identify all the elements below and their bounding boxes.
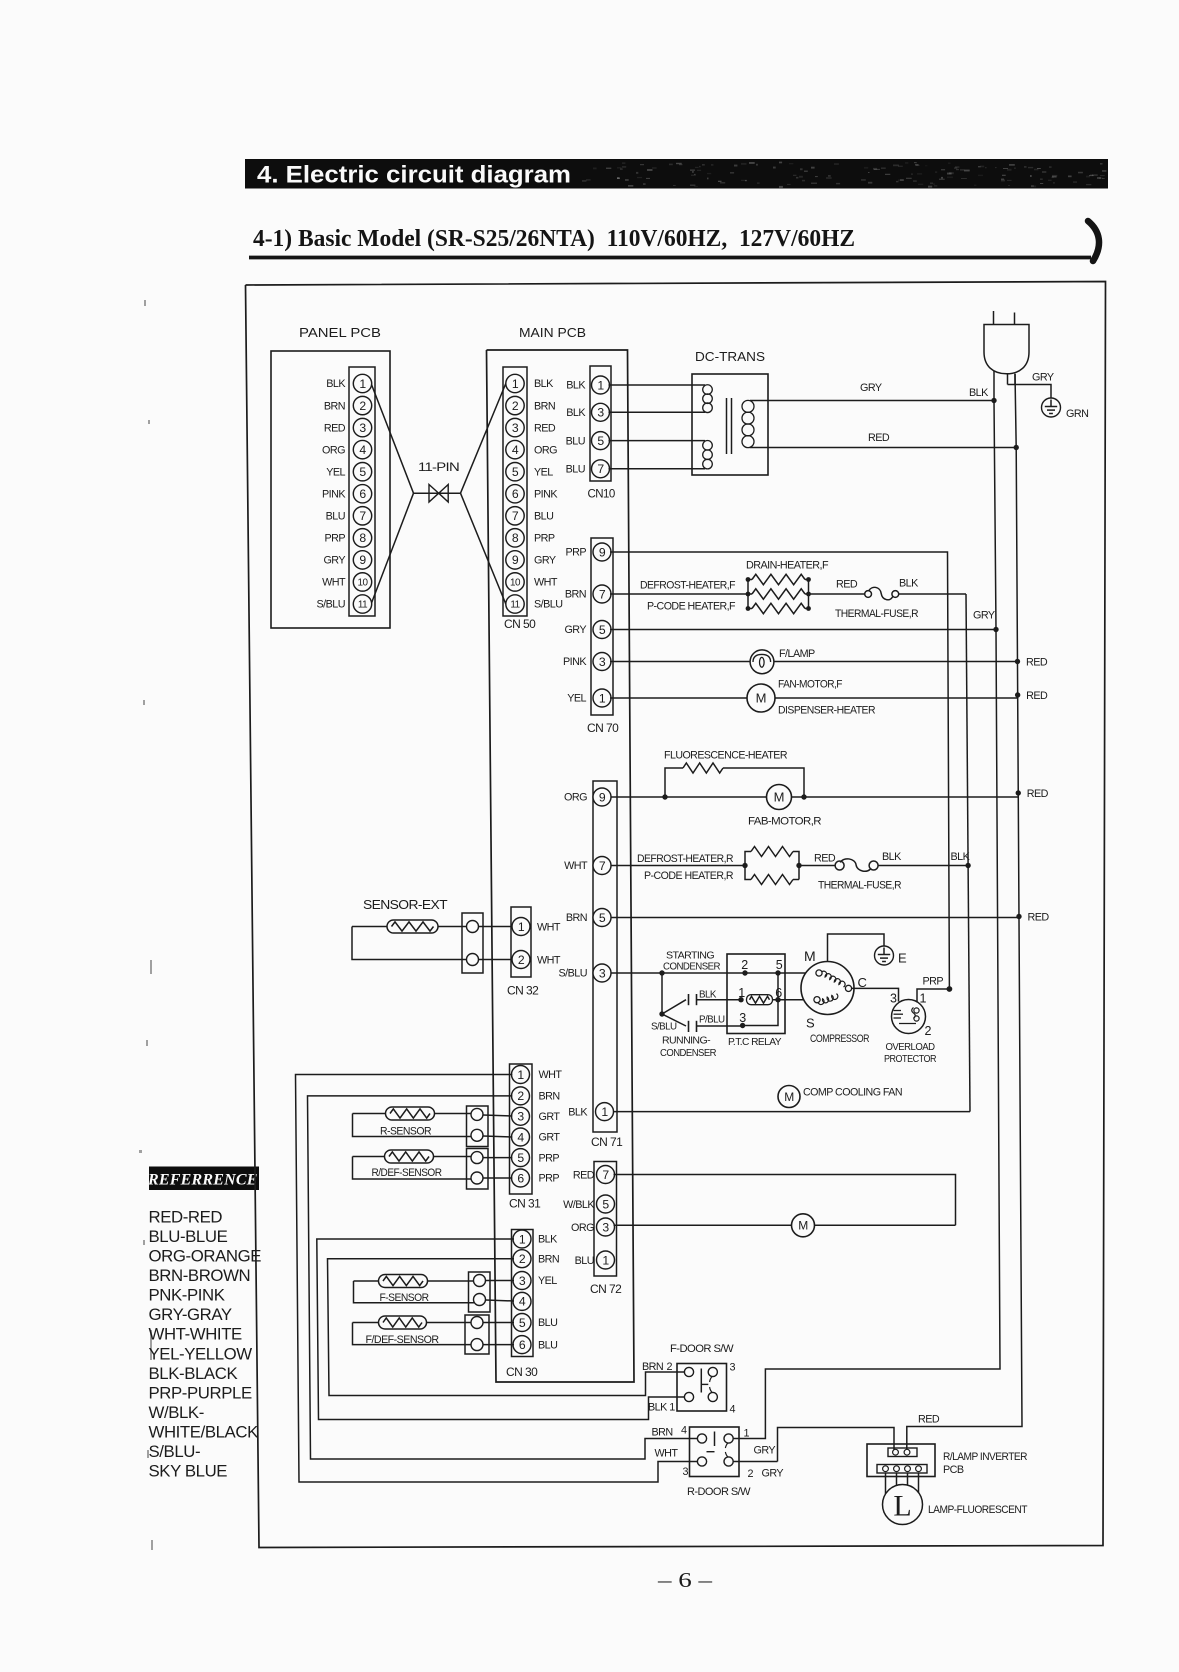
svg-text:DRAIN-HEATER,F: DRAIN-HEATER,F — [746, 560, 829, 572]
svg-text:MAIN PCB: MAIN PCB — [519, 325, 586, 340]
svg-text:F/LAMP: F/LAMP — [779, 648, 815, 660]
svg-text:2: 2 — [667, 1361, 673, 1373]
svg-text:CN 71: CN 71 — [591, 1135, 623, 1149]
svg-text:RED: RED — [1027, 788, 1049, 800]
svg-text:5: 5 — [599, 911, 606, 925]
svg-text:BLK: BLK — [566, 407, 586, 419]
svg-text:1: 1 — [518, 920, 525, 934]
svg-text:3: 3 — [602, 1220, 609, 1234]
svg-text:THERMAL-FUSE,R: THERMAL-FUSE,R — [818, 880, 902, 892]
svg-text:FAN-MOTOR,F: FAN-MOTOR,F — [778, 679, 843, 691]
svg-text:L: L — [893, 1490, 911, 1523]
svg-text:R/DEF-SENSOR: R/DEF-SENSOR — [372, 1167, 443, 1179]
svg-text:GRY: GRY — [762, 1468, 784, 1480]
svg-text:5: 5 — [512, 465, 519, 479]
svg-text:PINK: PINK — [563, 656, 587, 668]
svg-text:10: 10 — [358, 577, 369, 588]
svg-text:2: 2 — [512, 399, 519, 413]
svg-text:1: 1 — [744, 1428, 750, 1440]
svg-text:BLU: BLU — [538, 1317, 557, 1329]
svg-text:RED: RED — [1026, 690, 1048, 702]
svg-text:1: 1 — [519, 1232, 526, 1246]
svg-text:BLU: BLU — [326, 511, 345, 523]
svg-text:6: 6 — [517, 1171, 524, 1185]
svg-text:WHT: WHT — [537, 955, 561, 967]
svg-text:4-1) Basic Model (SR-S25/26NTA: 4-1) Basic Model (SR-S25/26NTA) 110V/60H… — [253, 226, 855, 252]
svg-text:4. Electric circuit diagram: 4. Electric circuit diagram — [257, 162, 571, 189]
svg-text:M: M — [774, 790, 785, 805]
svg-text:GRY: GRY — [564, 624, 586, 636]
svg-text:7: 7 — [359, 509, 366, 523]
svg-text:BLK: BLK — [951, 851, 971, 863]
svg-text:RED: RED — [534, 422, 556, 434]
svg-text:CN10: CN10 — [588, 489, 615, 501]
svg-text:BLK: BLK — [882, 851, 902, 863]
svg-text:3: 3 — [730, 1362, 736, 1374]
svg-text:PANEL PCB: PANEL PCB — [299, 325, 381, 340]
svg-text:GRY: GRY — [323, 555, 345, 567]
svg-text:3: 3 — [359, 421, 366, 435]
svg-text:3: 3 — [517, 1110, 524, 1124]
svg-text:5: 5 — [599, 623, 606, 637]
svg-text:8: 8 — [512, 531, 519, 545]
svg-text:YEL: YEL — [567, 693, 586, 705]
svg-text:BLK: BLK — [699, 990, 717, 1001]
svg-text:CN 32: CN 32 — [507, 984, 539, 998]
svg-text:4: 4 — [517, 1130, 524, 1144]
svg-text:6: 6 — [519, 1338, 526, 1352]
svg-text:3: 3 — [512, 421, 519, 435]
svg-text:BLK: BLK — [326, 378, 346, 390]
svg-text:9: 9 — [599, 545, 606, 559]
svg-text:W/BLK-: W/BLK- — [149, 1403, 204, 1422]
svg-text:COMP COOLING FAN: COMP COOLING FAN — [803, 1087, 902, 1099]
svg-text:GRT: GRT — [539, 1132, 561, 1144]
svg-text:BLK: BLK — [538, 1234, 558, 1246]
svg-text:THERMAL-FUSE,R: THERMAL-FUSE,R — [835, 608, 919, 620]
svg-text:PRP: PRP — [539, 1152, 560, 1164]
svg-text:3: 3 — [597, 406, 604, 420]
svg-text:PINK: PINK — [534, 488, 558, 500]
svg-text:7: 7 — [512, 509, 519, 523]
svg-text:PROTECTOR: PROTECTOR — [884, 1054, 936, 1065]
svg-text:2: 2 — [925, 1024, 932, 1038]
svg-text:BLU-BLUE: BLU-BLUE — [149, 1227, 228, 1246]
svg-text:BLU: BLU — [566, 464, 585, 476]
svg-text:BLK-BLACK: BLK-BLACK — [149, 1364, 238, 1383]
svg-text:ORG: ORG — [564, 792, 587, 804]
svg-text:7: 7 — [597, 462, 604, 476]
svg-text:P-CODE HEATER,F: P-CODE HEATER,F — [647, 601, 736, 613]
svg-text:CN 31: CN 31 — [509, 1197, 541, 1211]
svg-text:BLU: BLU — [534, 511, 553, 523]
svg-text:BRN: BRN — [534, 400, 555, 412]
svg-text:6: 6 — [359, 487, 366, 501]
svg-text:3: 3 — [890, 992, 897, 1006]
svg-text:PRP: PRP — [923, 976, 944, 988]
svg-text:WHT: WHT — [322, 577, 346, 589]
svg-text:S/BLU: S/BLU — [317, 599, 345, 611]
svg-text:FLUORESCENCE-HEATER: FLUORESCENCE-HEATER — [664, 750, 788, 762]
svg-text:BLK: BLK — [969, 387, 989, 399]
svg-text:YEL: YEL — [538, 1275, 557, 1287]
svg-text:LAMP-FLUORESCENT: LAMP-FLUORESCENT — [928, 1504, 1028, 1516]
svg-text:PNK-PINK: PNK-PINK — [149, 1286, 225, 1305]
svg-text:7: 7 — [602, 1168, 609, 1182]
svg-text:GRY: GRY — [1032, 372, 1054, 384]
svg-text:RED: RED — [1027, 912, 1049, 924]
svg-text:P-CODE HEATER,R: P-CODE HEATER,R — [644, 870, 734, 882]
svg-text:WHT: WHT — [539, 1069, 563, 1081]
svg-text:RED: RED — [836, 579, 858, 591]
svg-text:ORG: ORG — [534, 444, 557, 456]
svg-text:WHT: WHT — [655, 1448, 679, 1460]
svg-text:3: 3 — [739, 1011, 746, 1025]
svg-text:– 6 –: – 6 – — [657, 1568, 713, 1592]
svg-text:RED-RED: RED-RED — [149, 1208, 223, 1227]
svg-text:DC-TRANS: DC-TRANS — [695, 349, 765, 364]
svg-text:REFERRENCE: REFERRENCE — [147, 1172, 258, 1189]
svg-text:RED: RED — [1026, 657, 1048, 669]
svg-text:BRN-BROWN: BRN-BROWN — [149, 1266, 251, 1285]
svg-text:4: 4 — [512, 443, 519, 457]
svg-text:5: 5 — [776, 958, 783, 972]
svg-text:11: 11 — [358, 599, 368, 610]
svg-text:11: 11 — [510, 599, 520, 610]
svg-text:BRN: BRN — [324, 400, 345, 412]
svg-text:11-PIN: 11-PIN — [418, 462, 459, 474]
svg-text:1: 1 — [517, 1068, 524, 1082]
svg-text:7: 7 — [599, 859, 606, 873]
svg-text:CONDENSER: CONDENSER — [660, 1048, 716, 1059]
svg-text:4: 4 — [359, 443, 366, 457]
svg-text:1: 1 — [920, 992, 927, 1006]
svg-text:1: 1 — [602, 1253, 609, 1267]
svg-text:3: 3 — [683, 1466, 689, 1478]
svg-text:RUNNING-: RUNNING- — [662, 1036, 710, 1047]
svg-text:WHITE/BLACK: WHITE/BLACK — [149, 1422, 259, 1441]
svg-text:1: 1 — [512, 377, 519, 391]
svg-text:M: M — [798, 1219, 808, 1233]
svg-text:BLK: BLK — [534, 378, 554, 390]
svg-text:2: 2 — [359, 399, 366, 413]
svg-text:S/BLU: S/BLU — [559, 968, 587, 980]
svg-text:GRY: GRY — [754, 1445, 776, 1457]
svg-text:WHT: WHT — [534, 577, 558, 589]
svg-text:DEFROST-HEATER,R: DEFROST-HEATER,R — [637, 853, 734, 865]
svg-text:BLK: BLK — [899, 578, 919, 590]
svg-text:2: 2 — [518, 953, 525, 967]
svg-text:S: S — [806, 1016, 815, 1031]
svg-text:10: 10 — [510, 577, 521, 588]
svg-text:1: 1 — [601, 1105, 608, 1119]
svg-text:S/BLU-: S/BLU- — [149, 1442, 201, 1461]
svg-text:2: 2 — [748, 1468, 754, 1480]
svg-text:8: 8 — [359, 531, 366, 545]
svg-text:BLK: BLK — [566, 380, 586, 392]
svg-text:WHT: WHT — [537, 922, 561, 934]
svg-text:FAB-MOTOR,R: FAB-MOTOR,R — [748, 816, 822, 828]
svg-text:1: 1 — [738, 986, 745, 1000]
svg-text:GRY: GRY — [860, 382, 882, 394]
svg-text:GRT: GRT — [539, 1111, 561, 1123]
svg-text:BLU: BLU — [538, 1339, 557, 1351]
svg-text:5: 5 — [602, 1197, 609, 1211]
svg-text:3: 3 — [599, 655, 606, 669]
svg-text:1: 1 — [597, 378, 604, 392]
svg-text:RED: RED — [324, 422, 346, 434]
svg-text:P.T.C RELAY: P.T.C RELAY — [728, 1037, 782, 1048]
svg-text:4: 4 — [730, 1404, 736, 1416]
svg-text:6: 6 — [512, 487, 519, 501]
svg-text:DEFROST-HEATER,F: DEFROST-HEATER,F — [640, 580, 736, 592]
svg-text:5: 5 — [517, 1151, 524, 1165]
svg-text:ORG: ORG — [571, 1222, 594, 1234]
svg-text:YEL: YEL — [534, 466, 553, 478]
svg-text:F-DOOR S/W: F-DOOR S/W — [670, 1343, 734, 1355]
svg-text:RED: RED — [573, 1169, 595, 1181]
svg-text:2: 2 — [519, 1252, 526, 1266]
svg-text:SKY BLUE: SKY BLUE — [149, 1462, 228, 1481]
svg-text:BLU: BLU — [566, 435, 585, 447]
svg-text:PRP-PURPLE: PRP-PURPLE — [149, 1383, 252, 1402]
svg-text:COMPRESSOR: COMPRESSOR — [810, 1033, 870, 1045]
svg-text:S/BLU: S/BLU — [651, 1022, 677, 1033]
svg-text:ORG: ORG — [322, 444, 345, 456]
svg-text:GRY: GRY — [973, 610, 995, 622]
svg-text:RED: RED — [868, 432, 890, 444]
svg-text:SENSOR-EXT: SENSOR-EXT — [363, 898, 448, 912]
svg-text:YEL-YELLOW: YEL-YELLOW — [149, 1344, 253, 1363]
svg-text:3: 3 — [599, 966, 606, 980]
svg-text:CN 30: CN 30 — [506, 1365, 538, 1379]
svg-text:BRN: BRN — [538, 1253, 559, 1265]
svg-text:BRN: BRN — [566, 912, 587, 924]
svg-text:9: 9 — [359, 553, 366, 567]
svg-text:BLU: BLU — [575, 1255, 594, 1267]
svg-text:GRN: GRN — [1066, 408, 1088, 420]
svg-text:GRY-GRAY: GRY-GRAY — [149, 1305, 232, 1324]
svg-text:PRP: PRP — [324, 533, 345, 545]
svg-text:BRN: BRN — [642, 1361, 663, 1373]
svg-text:M: M — [784, 1090, 794, 1104]
svg-text:4: 4 — [681, 1425, 687, 1437]
svg-text:3: 3 — [519, 1274, 526, 1288]
svg-text:5: 5 — [597, 434, 604, 448]
svg-text:2: 2 — [741, 958, 748, 972]
svg-text:1: 1 — [599, 691, 606, 705]
svg-text:R-DOOR S/W: R-DOOR S/W — [687, 1486, 751, 1498]
svg-text:BRN: BRN — [539, 1091, 560, 1103]
svg-text:5: 5 — [519, 1316, 526, 1330]
svg-text:RED: RED — [918, 1414, 940, 1426]
svg-text:1: 1 — [359, 377, 366, 391]
svg-text:WHT: WHT — [564, 860, 588, 872]
svg-text:W/BLK: W/BLK — [563, 1199, 595, 1211]
svg-text:M: M — [756, 691, 767, 706]
svg-text:9: 9 — [512, 553, 519, 567]
svg-text:BRN: BRN — [652, 1427, 673, 1439]
svg-text:BRN: BRN — [565, 589, 586, 601]
svg-text:PCB: PCB — [943, 1464, 964, 1476]
svg-text:P/BLU: P/BLU — [699, 1015, 725, 1026]
svg-text:R-SENSOR: R-SENSOR — [380, 1126, 432, 1138]
svg-text:S/BLU: S/BLU — [534, 599, 562, 611]
svg-text:CONDENSER: CONDENSER — [663, 961, 720, 972]
svg-text:GRY: GRY — [534, 555, 556, 567]
svg-text:RED: RED — [814, 853, 836, 865]
svg-text:CN 70: CN 70 — [587, 721, 619, 735]
svg-text:6: 6 — [775, 986, 782, 1000]
svg-text:5: 5 — [359, 465, 366, 479]
svg-text:M: M — [804, 948, 816, 964]
svg-text:9: 9 — [599, 790, 606, 804]
svg-text:BLK: BLK — [568, 1106, 588, 1118]
svg-text:OVERLOAD: OVERLOAD — [886, 1042, 935, 1053]
svg-text:DISPENSER-HEATER: DISPENSER-HEATER — [778, 705, 876, 717]
svg-text:WHT-WHITE: WHT-WHITE — [149, 1325, 243, 1344]
svg-text:R/LAMP INVERTER: R/LAMP INVERTER — [943, 1451, 1028, 1463]
svg-text:BLK 1: BLK 1 — [648, 1402, 675, 1414]
svg-text:PRP: PRP — [534, 533, 555, 545]
svg-text:YEL: YEL — [326, 466, 345, 478]
svg-text:PRP: PRP — [565, 547, 586, 559]
svg-text:CN 50: CN 50 — [504, 617, 536, 631]
svg-text:ORG-ORANGE: ORG-ORANGE — [149, 1247, 262, 1266]
svg-text:PRP: PRP — [539, 1173, 560, 1185]
svg-text:STARTING: STARTING — [666, 951, 714, 962]
svg-text:4: 4 — [519, 1295, 526, 1309]
svg-text:PINK: PINK — [322, 488, 346, 500]
svg-text:CN 72: CN 72 — [590, 1282, 622, 1296]
svg-text:E: E — [898, 951, 907, 966]
svg-text:7: 7 — [599, 587, 606, 601]
svg-text:2: 2 — [517, 1089, 524, 1103]
